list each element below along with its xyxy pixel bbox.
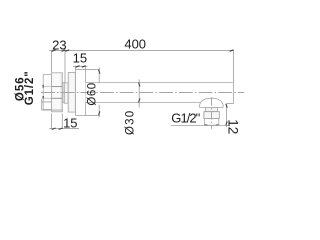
tick O60 bottom <box>99 111 101 115</box>
extension line 15 top right <box>84 66 86 69</box>
recessed neck <box>64 83 68 103</box>
O60 extension top <box>85 69 100 71</box>
tick 15 top right <box>82 66 86 68</box>
extension line 15 bottom left <box>51 114 53 129</box>
thread bore line upper in flange <box>52 86 63 88</box>
tick 12 bottom <box>226 121 228 125</box>
extension line 12 top <box>227 103 234 105</box>
svg-text:Ø30: Ø30 <box>124 110 136 135</box>
svg-text:15: 15 <box>63 116 77 131</box>
extension line 15 bottom right <box>61 114 63 129</box>
pipe top line <box>85 81 233 83</box>
thread chamfer mark left <box>205 124 208 126</box>
dimension line 23 and 400 <box>49 49 233 51</box>
dim line 12 <box>226 104 228 128</box>
stub thread tick lower <box>42 96 44 99</box>
tick O30 bottom <box>139 99 141 103</box>
pipe bottom line left segment <box>85 102 200 104</box>
svg-text:Ø60: Ø60 <box>86 82 98 105</box>
O60 dim line lower segment <box>98 105 100 118</box>
tick O30 top <box>139 83 141 87</box>
tick 15 top left <box>76 66 80 68</box>
svg-text:G1/2": G1/2" <box>24 70 36 105</box>
outlet vertical centerline <box>211 97 213 129</box>
svg-text:12: 12 <box>226 119 241 134</box>
extension line left of 23 <box>51 50 53 72</box>
O60 dim line upper segment <box>98 68 100 84</box>
extension line right end of 400 <box>232 50 234 82</box>
svg-text:G1/2": G1/2" <box>171 110 200 125</box>
underline leader G1/2 right and extension 12 bottom <box>171 125 230 127</box>
svg-text:15: 15 <box>73 51 87 66</box>
tick 15 bottom right <box>59 128 63 130</box>
nub ring <box>62 83 64 103</box>
tick 23 right and 400 left <box>62 50 70 52</box>
inner drum collar <box>68 73 75 113</box>
drum O60 <box>76 70 86 116</box>
tick 15 bottom left <box>52 128 56 130</box>
leader line for G1/2 left <box>42 109 63 111</box>
svg-text:400: 400 <box>124 37 146 52</box>
tick 23 left <box>52 50 56 52</box>
pipe end line <box>232 82 234 103</box>
svg-text:23: 23 <box>52 37 66 52</box>
main horizontal centerline <box>41 92 244 94</box>
outlet neck band <box>206 107 218 111</box>
O30 dim line <box>138 79 140 107</box>
extension line 15 top left <box>75 66 77 69</box>
flange plate O56 <box>52 73 63 112</box>
outlet ring <box>204 112 219 119</box>
O60 extension bottom <box>85 114 100 116</box>
thread chamfer mark right <box>216 124 219 126</box>
thread bore line lower in flange <box>52 97 63 99</box>
dimension line 15 bottom <box>49 128 79 130</box>
dimension line 15 top <box>73 65 88 67</box>
tick 400 right <box>230 50 234 52</box>
pipe body fill <box>85 82 233 102</box>
wall stub <box>43 75 51 110</box>
stub thread tick upper <box>42 85 44 88</box>
thread bore line lower in stub <box>44 97 52 99</box>
outlet thread <box>204 119 218 126</box>
tick O60 top <box>99 70 101 74</box>
tick 12 top <box>226 104 228 108</box>
thread bore line upper in stub <box>44 86 52 88</box>
extension line between 23 and 400 <box>64 50 66 82</box>
leader vertical connector <box>41 99 43 110</box>
outlet dome <box>200 98 224 107</box>
leader line for O56 <box>42 101 52 103</box>
